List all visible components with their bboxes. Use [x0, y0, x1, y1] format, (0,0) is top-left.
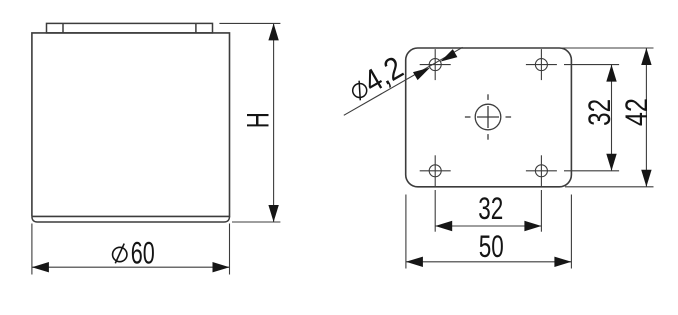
- dimension 50: left extension line: [405, 195, 407, 269]
- dimension 32 horizontal: dimension line: [435, 225, 541, 227]
- dimension 50: right arrowhead: [554, 257, 571, 267]
- dimension 32 vertical: dimension line: [611, 65, 613, 171]
- dimension 42 vertical: bottom arrowhead: [641, 170, 651, 187]
- dimension D60: dimension line: [32, 266, 230, 268]
- top view: plate outline: [406, 48, 572, 187]
- svg-text:42: 42: [618, 98, 654, 126]
- dimension H: dimension line: [273, 23, 275, 222]
- leader arrowhead lower-left: [413, 68, 430, 81]
- svg-text:H: H: [240, 112, 276, 128]
- dimension 32 horizontal: right extension line: [540, 190, 542, 232]
- dimension H: top arrowhead: [268, 23, 278, 40]
- svg-text:4,2: 4,2: [357, 49, 409, 100]
- dimension 32 horizontal: left arrowhead: [435, 221, 452, 231]
- label D4,2 diameter symbol: [349, 79, 370, 101]
- dimension D60: right extension line: [229, 224, 231, 275]
- dimension 50: left arrowhead: [406, 257, 423, 267]
- dimension H: top extension line: [219, 22, 280, 24]
- center hole: [465, 94, 511, 139]
- side view: plate right tab divider: [195, 23, 197, 33]
- dimension D60: diameter symbol: [113, 244, 127, 264]
- side view: plate left tab divider: [62, 23, 64, 33]
- dimension 32 vertical: top arrowhead: [606, 65, 616, 82]
- dimension H: bottom arrowhead: [268, 205, 278, 222]
- dimension 42 vertical: dimension line: [645, 48, 647, 187]
- dimension 42 vertical: bottom extension line: [565, 186, 654, 188]
- dimension H: bottom extension line: [232, 221, 280, 223]
- hole bottom-left: [420, 155, 451, 186]
- dimension D60: left arrowhead: [32, 262, 49, 272]
- dimension 50: right extension line: [570, 195, 572, 269]
- dimension 32 horizontal: left extension line: [434, 190, 436, 232]
- dimension 32 vertical: top extension line: [564, 64, 619, 66]
- svg-text:32: 32: [581, 99, 617, 126]
- dimension 42 vertical: top extension line: [561, 47, 654, 49]
- svg-text:60: 60: [131, 234, 155, 270]
- dimension 32 vertical: bottom extension line: [564, 170, 619, 172]
- side view: top mounting plate edge: [47, 23, 213, 33]
- svg-text:50: 50: [479, 228, 504, 264]
- hole top-right: [526, 49, 557, 80]
- dimension 42 vertical: top arrowhead: [641, 48, 651, 65]
- leader arrowhead upper-right: [440, 49, 457, 62]
- dimension 32 horizontal: right arrowhead: [524, 221, 541, 231]
- dimension 50: dimension line: [406, 261, 572, 263]
- hole bottom-right: [526, 155, 557, 186]
- side view: bottom rim: [32, 216, 230, 222]
- svg-text:32: 32: [478, 190, 503, 226]
- side view: body outline: [32, 33, 230, 217]
- dimension D60: left extension line: [31, 224, 33, 275]
- hole top-left: [420, 49, 451, 80]
- leader line for hole diameter: [344, 47, 463, 115]
- dimension 32 vertical: bottom arrowhead: [606, 154, 616, 171]
- dimension D60: right arrowhead: [213, 262, 230, 272]
